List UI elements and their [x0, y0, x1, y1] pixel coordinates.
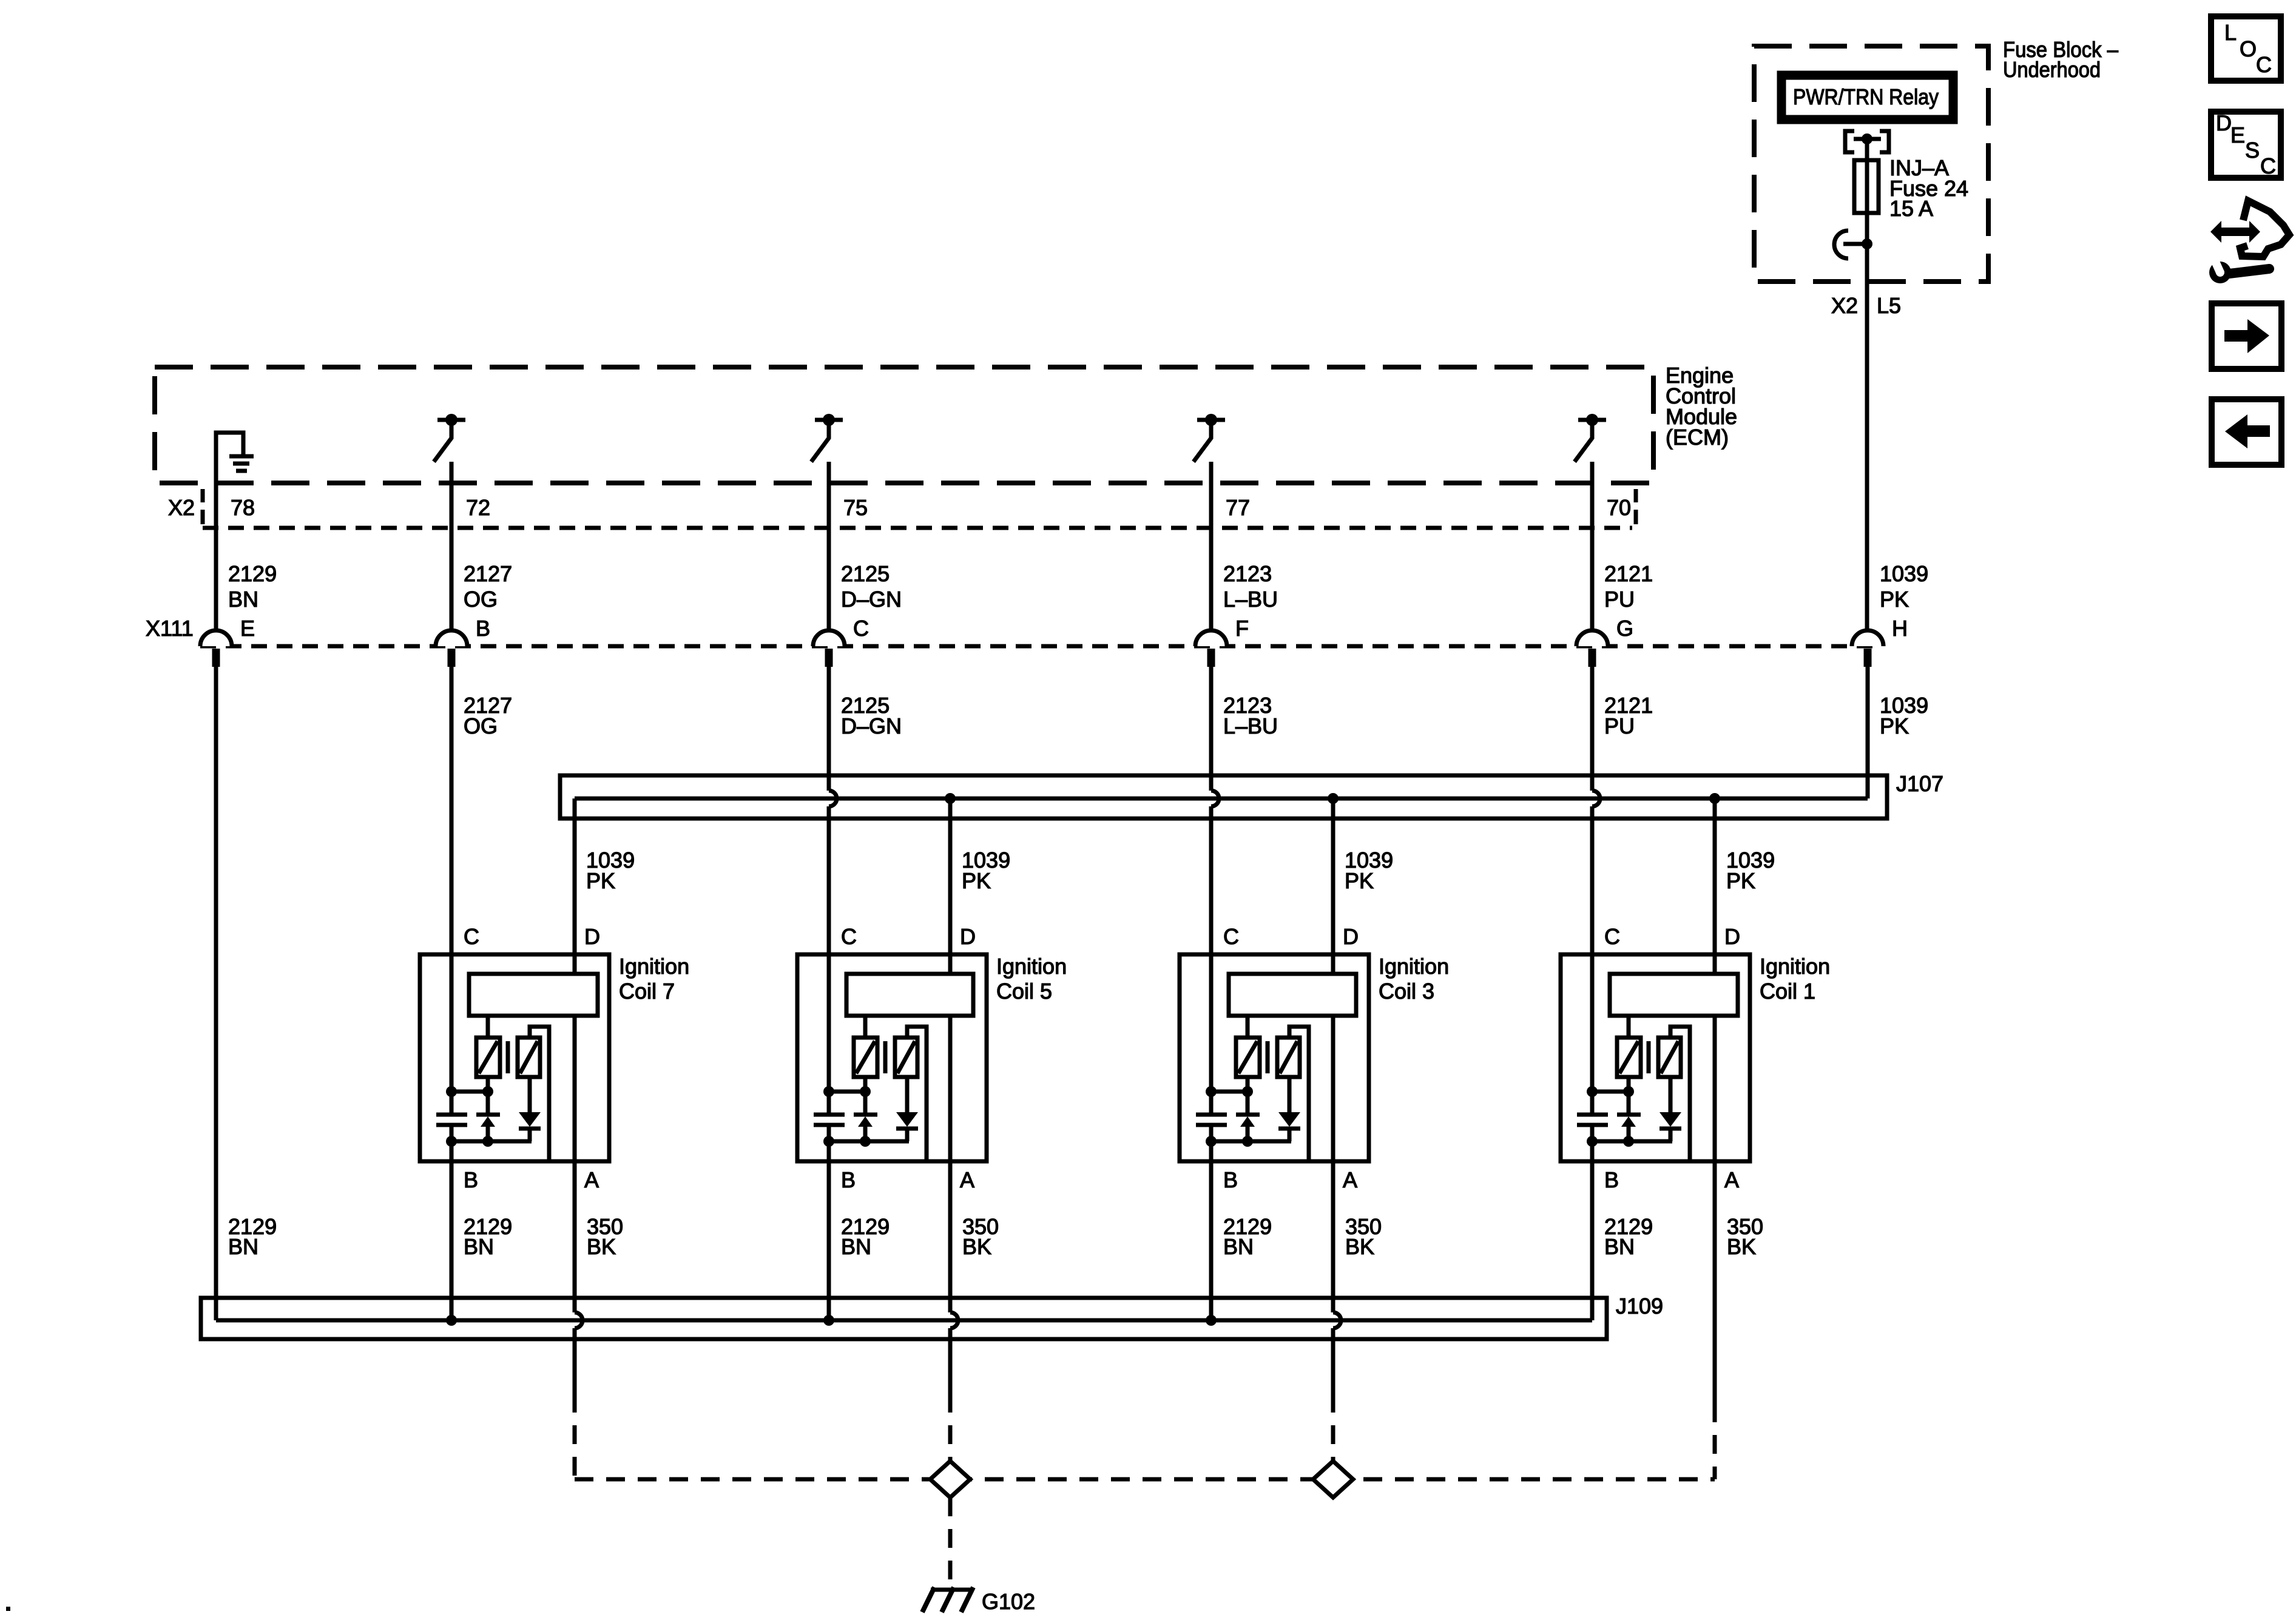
wire label 2127 OG (above X111) — [464, 561, 512, 612]
icon back arrow box — [2212, 399, 2281, 465]
coil 7 connector bar — [469, 974, 598, 1016]
wire 1039 PK J107 to coil 5 pin D — [948, 798, 953, 976]
label Fuse Block - Underhood — [2003, 37, 2118, 82]
label Ignition Coil 1 — [1760, 954, 1830, 1004]
wire label 2129 BN (above J109) — [228, 1214, 277, 1259]
ignition coil 3 box — [1180, 954, 1369, 1161]
svg-text:15 A: 15 A — [1889, 196, 1933, 221]
svg-text:Ignition: Ignition — [1760, 954, 1830, 979]
wire X111 to coil 3 pin C with hop over J107, capacitor gap, to J109 — [1211, 667, 1219, 1320]
wire label 2121 PU (below X111) — [1604, 693, 1653, 738]
svg-text:A: A — [584, 1167, 599, 1192]
ECM driver switch at wire x=1996 — [1194, 414, 1225, 462]
splice pack J109 — [201, 1298, 1607, 1339]
svg-text:Ignition: Ignition — [1379, 954, 1449, 979]
coil 1 zener diode — [1617, 1077, 1641, 1141]
svg-text:Coil 7: Coil 7 — [619, 979, 675, 1004]
svg-text:BN: BN — [1604, 1234, 1635, 1259]
wire label 2121 PU (above X111) — [1604, 561, 1653, 612]
icon forward arrow box — [2212, 303, 2281, 369]
icon DESC box — [2211, 110, 2281, 178]
svg-text:PWR/TRN Relay: PWR/TRN Relay — [1793, 84, 1939, 109]
svg-text:C: C — [464, 924, 479, 949]
wire label 1039 PK (above X111) — [1880, 561, 1928, 612]
ECM driver switch at wire x=744 — [434, 414, 465, 462]
coil 7 capacitor — [436, 1115, 467, 1125]
svg-text:L–BU: L–BU — [1223, 714, 1278, 738]
svg-text:OG: OG — [464, 587, 498, 612]
wire label 1039 PK (coil 7 D) — [586, 848, 635, 893]
wire label 2129 BN (above J109) — [1223, 1214, 1272, 1259]
wire 2129 BN X111 E to J109 — [214, 667, 218, 1320]
ignition coil 7 box — [420, 954, 609, 1161]
coil 3 connector bar — [1229, 974, 1356, 1016]
svg-text:PK: PK — [1880, 587, 1909, 612]
svg-text:72: 72 — [466, 495, 490, 520]
svg-text:L–BU: L–BU — [1223, 587, 1278, 612]
wire label 1039 PK (coil 5 D) — [962, 848, 1010, 893]
svg-text:BK: BK — [1727, 1234, 1756, 1259]
svg-text:PU: PU — [1604, 714, 1635, 738]
coil 3 secondary winding — [1277, 1027, 1309, 1161]
wire 1039 PK J107 to coil 1 pin D — [1713, 798, 1717, 976]
svg-text:BK: BK — [1345, 1234, 1374, 1259]
svg-text:J109: J109 — [1616, 1294, 1663, 1318]
svg-text:A: A — [960, 1167, 974, 1192]
connector X111 pin B — [436, 616, 490, 667]
svg-text:D–GN: D–GN — [841, 714, 902, 738]
coil 7 diode — [519, 1077, 541, 1141]
coil 7 secondary winding — [518, 1027, 549, 1161]
svg-text:B: B — [1604, 1167, 1619, 1192]
svg-text:Coil 3: Coil 3 — [1379, 979, 1434, 1004]
wire relay to fuse — [1865, 139, 1869, 160]
svg-text:PK: PK — [1880, 714, 1909, 738]
coil 7 core — [506, 1041, 510, 1073]
svg-text:70: 70 — [1607, 495, 1631, 520]
wire X111 to coil 5 pin C with hop over J107, capacitor gap, to J109 — [829, 667, 837, 1320]
fuse INJ-A Fuse 24 15 A — [1854, 160, 1879, 213]
svg-text:X111: X111 — [146, 616, 194, 641]
svg-text:H: H — [1892, 616, 1908, 641]
svg-text:Ignition: Ignition — [996, 954, 1067, 979]
svg-text:BN: BN — [841, 1234, 871, 1259]
svg-text:Coil 1: Coil 1 — [1760, 979, 1815, 1004]
wire 2127 OG X111 B to coil 7 pin C, capacitor gap, to J109 — [450, 667, 454, 1320]
wire label 2123 L-BU (below X111) — [1223, 693, 1278, 738]
coil 1 primary winding — [1617, 1016, 1641, 1077]
svg-text:C: C — [841, 924, 857, 949]
label INJ-A Fuse 24 15 A — [1889, 155, 1968, 221]
coil 3 core — [1266, 1041, 1270, 1073]
svg-text:C: C — [1223, 924, 1239, 949]
wire label 2129 BN (above J109) — [841, 1214, 890, 1259]
connector X111 pin C — [813, 616, 869, 667]
wire 2129 BN ECM 78 to X111 E — [214, 483, 218, 631]
svg-text:PK: PK — [586, 868, 615, 893]
svg-text:2129: 2129 — [228, 561, 277, 586]
coil 7 node line top — [446, 1086, 493, 1097]
label Ignition Coil 7 — [619, 954, 689, 1004]
wire fuse to relay switch — [1865, 213, 1869, 244]
connector X111 dotted line — [200, 644, 1875, 649]
wire 350 BK coil 5 pin A through J109 to splice — [950, 1016, 958, 1479]
wire 2121 PU ECM 70 to X111 G — [1590, 462, 1595, 631]
dashed ground bus line — [575, 1477, 1715, 1482]
svg-text:O: O — [2240, 36, 2257, 61]
wire label 1039 PK (coil 1 D) — [1726, 848, 1775, 893]
wire label 350 BK (above J109) — [1727, 1214, 1763, 1259]
svg-text:77: 77 — [1226, 495, 1250, 520]
wire 1039 PK J107 to coil 7 pin D — [573, 798, 577, 976]
coil 5 connector bar — [846, 974, 973, 1016]
ignition coil 1 box — [1561, 954, 1750, 1161]
svg-text:1039: 1039 — [1880, 561, 1928, 586]
coil 1 capacitor — [1577, 1115, 1608, 1125]
svg-text:B: B — [841, 1167, 856, 1192]
label Engine Control Module (ECM) — [1666, 363, 1737, 450]
coil 7 primary winding — [476, 1016, 500, 1077]
wire label 2129 BN (above J109) — [464, 1214, 512, 1259]
svg-text:BN: BN — [464, 1234, 494, 1259]
svg-text:E: E — [2230, 123, 2245, 147]
svg-text:E: E — [240, 616, 255, 641]
ECM driver switch at wire x=2624 — [1575, 414, 1606, 462]
svg-text:D: D — [2216, 110, 2232, 135]
coil 5 node line bottom — [823, 1136, 909, 1147]
wire 2125 D-GN ECM 75 to X111 C — [827, 462, 831, 631]
connector X111 pin F — [1195, 616, 1249, 667]
connector X2 label row — [168, 489, 1636, 524]
svg-text:D: D — [960, 924, 976, 949]
svg-text:D: D — [1343, 924, 1359, 949]
page corner dot — [6, 1607, 10, 1611]
wire 350 BK coil 3 pin A through J109 to splice — [1333, 1016, 1341, 1479]
svg-text:BN: BN — [228, 1234, 258, 1259]
svg-text:BK: BK — [962, 1234, 991, 1259]
svg-text:OG: OG — [464, 714, 498, 738]
wire 350 BK coil 1 pin A to splice — [1713, 1016, 1717, 1479]
fuse block underhood dashed box — [1754, 46, 1988, 282]
svg-text:S: S — [2245, 138, 2260, 163]
svg-text:Underhood: Underhood — [2003, 57, 2101, 82]
label Ignition Coil 3 — [1379, 954, 1449, 1004]
ECM internal ground — [216, 433, 254, 483]
svg-text:C: C — [853, 616, 869, 641]
svg-text:A: A — [1343, 1167, 1357, 1192]
coil 5 secondary winding — [895, 1027, 927, 1161]
wire H X111 to J107 — [1866, 667, 1870, 798]
wire 2123 L-BU ECM 77 to X111 F — [1209, 462, 1214, 631]
coil 5 zener diode — [854, 1077, 877, 1141]
svg-text:D: D — [1724, 924, 1740, 949]
connector X111 pin E — [200, 616, 255, 667]
svg-text:75: 75 — [843, 495, 868, 520]
svg-text:2125: 2125 — [841, 561, 890, 586]
svg-text:PK: PK — [962, 868, 991, 893]
splice pack J107 — [560, 775, 1887, 819]
connector X111 pin G — [1576, 616, 1633, 667]
coil 3 zener diode — [1236, 1077, 1260, 1141]
svg-text:L5: L5 — [1877, 293, 1901, 318]
wire label 1039 PK (coil 3 D) — [1345, 848, 1393, 893]
wire label 350 BK (above J109) — [962, 1214, 999, 1259]
wire H 1039 PK from fuse block to X111 H — [1865, 244, 1869, 631]
svg-text:BN: BN — [228, 587, 258, 612]
splice diamond at coil 3 leg — [1313, 1461, 1353, 1497]
svg-text:2127: 2127 — [464, 561, 512, 586]
svg-text:G102: G102 — [982, 1589, 1035, 1614]
wire label 2127 OG (below X111) — [464, 693, 512, 738]
svg-text:C: C — [2256, 52, 2272, 77]
svg-text:X2: X2 — [1831, 293, 1858, 318]
coil 3 primary winding — [1236, 1016, 1260, 1077]
coil 5 node line top — [823, 1086, 871, 1097]
svg-text:PK: PK — [1726, 868, 1755, 893]
connector X111 pin H — [1852, 616, 1908, 667]
svg-text:B: B — [464, 1167, 478, 1192]
icon LOC box — [2211, 16, 2281, 81]
coil 1 connector bar — [1610, 974, 1738, 1016]
label X2 | L5 — [1831, 293, 1901, 318]
coil 3 diode — [1278, 1077, 1300, 1141]
relay contact bracket — [1845, 131, 1889, 152]
wire label 350 BK (above J109) — [1345, 1214, 1382, 1259]
connector X2 dotted line — [203, 526, 1632, 530]
svg-text:X2: X2 — [168, 495, 195, 520]
splice diamond at coil 5 leg — [930, 1461, 970, 1497]
svg-text:78: 78 — [231, 495, 255, 520]
dashed wire to ground G102 — [948, 1497, 953, 1585]
coil 1 core — [1647, 1041, 1651, 1073]
svg-text:D–GN: D–GN — [841, 587, 902, 612]
wire 1039 PK J107 to coil 3 pin D — [1331, 798, 1335, 976]
wire label 1039 PK (below X111) — [1880, 693, 1928, 738]
svg-text:PU: PU — [1604, 587, 1635, 612]
svg-text:Ignition: Ignition — [619, 954, 689, 979]
coil 5 diode — [896, 1077, 918, 1141]
coil 7 node line bottom — [446, 1136, 532, 1147]
icon wiring/repair (arrow + wrench) — [2209, 201, 2289, 283]
ignition coil 5 box — [797, 954, 987, 1161]
coil 5 primary winding — [854, 1016, 877, 1077]
svg-text:L: L — [2224, 20, 2237, 45]
wire label 2125 D-GN (below X111) — [841, 693, 902, 738]
ECM driver switch at wire x=1366 — [811, 414, 843, 462]
coil 1 node line top — [1587, 1086, 1634, 1097]
svg-text:C: C — [1604, 924, 1620, 949]
svg-text:PK: PK — [1345, 868, 1374, 893]
wire 2127 OG ECM 72 to X111 B — [450, 462, 454, 631]
svg-text:A: A — [1724, 1167, 1739, 1192]
svg-text:G: G — [1616, 616, 1633, 641]
coil 3 capacitor — [1196, 1115, 1227, 1125]
label Ignition Coil 5 — [996, 954, 1067, 1004]
coil 1 node line bottom — [1587, 1136, 1672, 1147]
svg-text:BN: BN — [1223, 1234, 1254, 1259]
coil 1 secondary winding — [1658, 1027, 1690, 1161]
svg-text:BK: BK — [587, 1234, 616, 1259]
coil 3 node line bottom — [1206, 1136, 1291, 1147]
coil 5 core — [883, 1041, 888, 1073]
relay PWR/TRN Relay — [1781, 75, 1953, 120]
wire X111 to coil 1 pin C with hop over J107, capacitor gap, to J109 — [1592, 667, 1600, 1320]
svg-text:B: B — [476, 616, 490, 641]
coil 3 node line top — [1206, 1086, 1253, 1097]
wire label 350 BK (above J109) — [587, 1214, 623, 1259]
svg-text:F: F — [1235, 616, 1249, 641]
coil 7 zener diode — [476, 1077, 500, 1141]
svg-text:Coil 5: Coil 5 — [996, 979, 1052, 1004]
svg-text:2123: 2123 — [1223, 561, 1272, 586]
wire label 2129 BN (above X111) — [228, 561, 277, 612]
svg-text:(ECM): (ECM) — [1666, 425, 1729, 450]
ground G102 — [922, 1587, 973, 1612]
svg-text:J107: J107 — [1896, 771, 1943, 796]
svg-text:2121: 2121 — [1604, 561, 1653, 586]
svg-text:C: C — [2260, 154, 2276, 178]
svg-text:D: D — [584, 924, 600, 949]
ECM dashed box — [155, 367, 1653, 483]
coil 5 capacitor — [814, 1115, 845, 1125]
wire label 2129 BN (above J109) — [1604, 1214, 1653, 1259]
wire 350 BK coil 7 pin A through J109 to splice — [575, 1016, 582, 1479]
wire label 2125 D-GN (above X111) — [841, 561, 902, 612]
svg-text:B: B — [1223, 1167, 1238, 1192]
relay switch contact — [1834, 231, 1872, 258]
coil 1 diode — [1660, 1077, 1681, 1141]
wire label 2123 L-BU (above X111) — [1223, 561, 1278, 612]
